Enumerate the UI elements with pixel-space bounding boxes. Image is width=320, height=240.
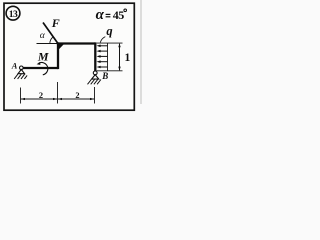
svg-text:13: 13 bbox=[9, 9, 18, 20]
roller support B bbox=[88, 71, 101, 84]
moment M arc arrow bbox=[37, 62, 48, 75]
svg-text:B: B bbox=[101, 71, 108, 81]
frame bottom-left member (A to corner) bbox=[23, 67, 58, 69]
frame right vertical member bbox=[94, 42, 96, 71]
svg-text:1: 1 bbox=[125, 51, 131, 64]
force F arrow bbox=[43, 23, 64, 50]
svg-text:α: α bbox=[96, 7, 105, 23]
dimension 1 (right side) bbox=[97, 43, 123, 71]
svg-text:2: 2 bbox=[75, 91, 79, 100]
angle arc alpha bbox=[50, 37, 53, 43]
leader line from q to load bbox=[100, 37, 105, 43]
svg-text:q: q bbox=[106, 24, 112, 38]
dimension 2 left segment bbox=[21, 98, 58, 100]
dimension 2 right segment bbox=[58, 98, 95, 100]
label alpha = 45 deg bbox=[96, 7, 127, 23]
svg-text:F: F bbox=[51, 16, 60, 30]
frame left vertical member bbox=[57, 42, 59, 69]
svg-text:2: 2 bbox=[39, 91, 43, 100]
extension line below support B bbox=[94, 87, 96, 104]
pin support A bbox=[14, 66, 27, 79]
reference line at top corner for angle alpha bbox=[37, 43, 59, 45]
svg-text:45: 45 bbox=[113, 8, 125, 22]
extension line below support A bbox=[20, 88, 22, 104]
frame top member bbox=[57, 42, 95, 44]
svg-text:A: A bbox=[11, 61, 18, 70]
problem number badge 13 bbox=[6, 6, 20, 20]
distributed load q on right member bbox=[97, 43, 108, 71]
extension line below frame left member bbox=[57, 82, 59, 104]
svg-text:M: M bbox=[37, 50, 49, 64]
